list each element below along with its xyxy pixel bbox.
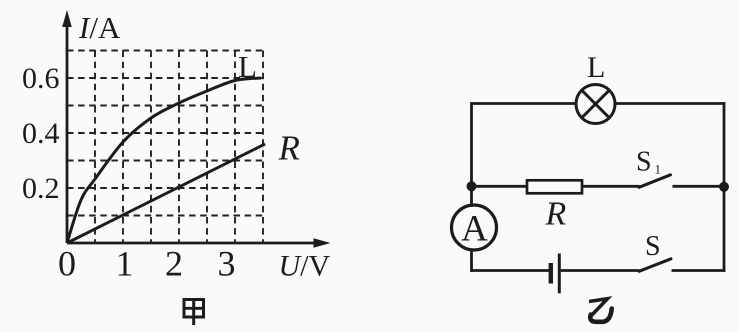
svg-text:U/V: U/V [279, 250, 331, 283]
y-axis [62, 10, 72, 243]
svg-text:A: A [461, 209, 488, 250]
lamp L [576, 85, 615, 124]
svg-text:3: 3 [218, 244, 236, 284]
label S1 [636, 147, 661, 178]
label L (lamp) [587, 51, 605, 84]
wire bottom-left [470, 269, 549, 272]
wire bottom-middle [561, 269, 640, 272]
wire right vertical [723, 102, 726, 272]
svg-text:0: 0 [58, 244, 76, 284]
node junction left [467, 181, 477, 191]
wire middle [582, 185, 640, 188]
svg-text:L: L [238, 49, 257, 84]
label S (switch) [645, 231, 661, 262]
svg-text:1: 1 [655, 162, 662, 177]
ammeter A [452, 205, 497, 250]
caption 甲 [184, 300, 204, 326]
resistor R [527, 180, 582, 193]
x tick label 1 [116, 244, 134, 284]
curve L [67, 78, 261, 243]
grid vertical dashed lines [95, 51, 263, 244]
svg-text:I/A: I/A [78, 10, 121, 45]
line label R [278, 129, 300, 168]
wire top-left [472, 102, 577, 105]
wire middle-left [472, 185, 529, 188]
axis label U/V [279, 250, 331, 283]
x tick label 0 [58, 244, 76, 284]
label R (resistor) [545, 196, 567, 233]
curve label L [238, 49, 257, 84]
svg-text:S: S [645, 231, 661, 262]
axis label I/A [78, 10, 121, 45]
svg-text:R: R [545, 196, 567, 233]
battery [551, 254, 560, 294]
switch S [639, 259, 671, 272]
y tick label 0.2 [22, 172, 60, 205]
wire left vertical upper [470, 102, 473, 207]
x tick label 2 [165, 244, 183, 284]
line R (graph) [67, 144, 265, 243]
svg-text:2: 2 [165, 244, 183, 284]
caption 乙 [589, 297, 612, 322]
switch S1 [639, 175, 671, 188]
wire top-right [615, 102, 726, 105]
svg-text:L: L [587, 51, 605, 84]
y tick label 0.4 [22, 117, 60, 150]
svg-text:R: R [278, 129, 300, 168]
svg-text:1: 1 [116, 244, 134, 284]
svg-text:0.2: 0.2 [22, 172, 60, 205]
y tick label 0.6 [22, 62, 60, 95]
x-axis [67, 238, 331, 248]
svg-text:0.6: 0.6 [22, 62, 60, 95]
svg-text:S: S [636, 147, 652, 178]
grid horizontal dashed lines [67, 51, 263, 216]
x tick label 3 [218, 244, 236, 284]
wire left vertical lower [470, 249, 473, 272]
wire middle-right [673, 185, 725, 188]
svg-text:0.4: 0.4 [22, 117, 60, 150]
node junction right [719, 182, 729, 192]
wire bottom-right [672, 269, 726, 272]
